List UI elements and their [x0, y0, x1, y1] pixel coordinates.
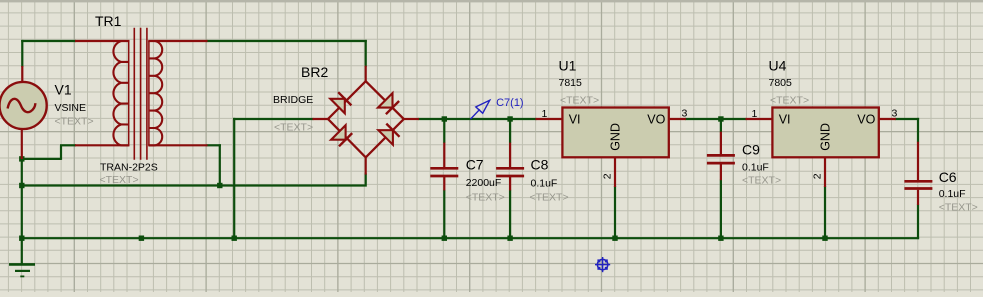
- capacitor C7 plates: [430, 167, 458, 170]
- svg-text:3: 3: [682, 108, 688, 120]
- svg-text:<TEXT>: <TEXT>: [770, 94, 809, 106]
- svg-text:C8: C8: [531, 157, 549, 173]
- svg-text:<TEXT>: <TEXT>: [100, 174, 139, 186]
- svg-text:0.1uF: 0.1uF: [939, 188, 966, 200]
- pin bridge top: [365, 66, 367, 83]
- svg-text:VO: VO: [857, 113, 875, 127]
- svg-text:1: 1: [542, 108, 548, 120]
- capacitor C6 plates: [904, 180, 932, 183]
- junction C8 bottom: [507, 236, 512, 241]
- svg-text:V1: V1: [55, 81, 72, 97]
- ground: [21, 238, 23, 264]
- svg-text:<TEXT>: <TEXT>: [560, 94, 599, 106]
- svg-text:<TEXT>: <TEXT>: [55, 116, 94, 128]
- pin U4 GND (2): [824, 156, 826, 187]
- pin C6 bottom lead: [917, 190, 919, 205]
- pin TR1 secondary top: [148, 40, 207, 42]
- diode BR2 upper-left: [330, 99, 345, 114]
- svg-text:2: 2: [811, 173, 823, 179]
- svg-text:2200uF: 2200uF: [466, 177, 502, 189]
- regulator U4 body: [772, 108, 878, 158]
- diode BR2 lower-left: [331, 125, 346, 140]
- pin C8 bottom lead: [509, 177, 511, 191]
- svg-text:<TEXT>: <TEXT>: [274, 121, 313, 133]
- svg-text:TR1: TR1: [95, 13, 122, 29]
- pin C6 top lead: [917, 142, 919, 181]
- wire C9 leads: [720, 118, 722, 132]
- svg-text:7805: 7805: [769, 77, 793, 89]
- junction U4 GND on rail: [822, 236, 827, 241]
- svg-text:C7: C7: [466, 157, 484, 173]
- junction C7 bottom: [442, 236, 447, 241]
- svg-text:<TEXT>: <TEXT>: [939, 201, 978, 213]
- transformer TR1 core: [133, 28, 135, 160]
- diode BR2 upper-right: [378, 93, 393, 108]
- wire U4 VO to C6: [895, 118, 919, 120]
- svg-text:GND: GND: [819, 123, 833, 151]
- wire bridge left to ground rail: [233, 118, 313, 120]
- svg-text:VO: VO: [647, 113, 665, 127]
- junction bridge-left leg on rail: [232, 236, 237, 241]
- pin U4 VI (1): [746, 118, 774, 120]
- wire bridge bottom to left ground net: [21, 184, 367, 186]
- regulator U1 body: [562, 108, 668, 158]
- svg-text:BR2: BR2: [301, 64, 328, 80]
- svg-text:TRAN-2P2S: TRAN-2P2S: [100, 161, 158, 173]
- wire C7 leads: [443, 118, 445, 143]
- pin C7 top lead: [443, 143, 445, 168]
- svg-text:VSINE: VSINE: [55, 102, 87, 114]
- wire V1 bottom to TR1 primary bottom: [21, 158, 61, 160]
- pin TR1 primary bottom: [75, 144, 130, 146]
- pin TR1 secondary bottom: [148, 144, 207, 146]
- pin V1 top: [21, 66, 23, 83]
- junction ground net at x22 y185: [19, 183, 24, 188]
- source V1 sine symbol: [8, 99, 36, 112]
- pin U1 VO (3): [668, 118, 686, 120]
- junction C9 bottom: [718, 236, 723, 241]
- pin U4 VO (3): [878, 118, 896, 120]
- pin TR1 primary top: [75, 40, 130, 42]
- junction ground rail left: [19, 236, 24, 241]
- pin bridge right: [404, 118, 419, 120]
- junction C8 top: [507, 116, 512, 121]
- wire TR1 secondary bottom down: [207, 144, 221, 146]
- svg-text:<TEXT>: <TEXT>: [530, 191, 569, 203]
- junction on rail below TR1: [139, 236, 144, 241]
- pin U1 GND (2): [614, 156, 616, 187]
- wire bridge right to U1 VI: [418, 118, 537, 120]
- svg-text:1: 1: [752, 108, 758, 120]
- wire TR1 secondary top to bridge top: [207, 40, 367, 42]
- svg-text:0.1uF: 0.1uF: [742, 161, 769, 173]
- pin C7 bottom lead: [443, 177, 445, 191]
- svg-text:<TEXT>: <TEXT>: [466, 191, 505, 203]
- pin C9 bottom lead: [720, 164, 722, 180]
- pin V1 bottom: [21, 129, 23, 159]
- svg-text:2: 2: [601, 173, 613, 179]
- wire C8 leads: [509, 118, 511, 143]
- svg-text:C9: C9: [742, 141, 760, 157]
- wire V1 top to TR1 primary: [21, 40, 76, 42]
- wire U4 GND to rail: [824, 186, 826, 239]
- junction U1 GND on rail: [612, 236, 617, 241]
- svg-text:C6: C6: [939, 169, 957, 185]
- wire U1 GND to rail: [614, 186, 616, 239]
- svg-text:VI: VI: [569, 113, 581, 127]
- capacitor C9 plates: [707, 154, 735, 157]
- origin marker (blue crosshair): [595, 257, 610, 272]
- svg-text:7815: 7815: [559, 77, 583, 89]
- source V1 circle: [0, 82, 47, 129]
- wire V1 bottom to ground rail: [21, 158, 23, 239]
- pin C8 top lead: [509, 143, 511, 168]
- pin bridge bottom: [365, 157, 367, 174]
- svg-text:GND: GND: [609, 123, 623, 151]
- wire U1 VO to U4 VI: [685, 118, 747, 120]
- svg-text:C7(1): C7(1): [496, 97, 524, 109]
- svg-text:VI: VI: [779, 113, 791, 127]
- capacitor C8 plates: [496, 167, 524, 170]
- svg-text:<TEXT>: <TEXT>: [742, 175, 781, 187]
- junction C9 top: [718, 116, 723, 121]
- svg-text:3: 3: [892, 108, 898, 120]
- svg-text:U4: U4: [769, 58, 787, 74]
- diode BR2 lower-right: [378, 130, 393, 145]
- transformer TR1 secondary coil: [148, 41, 150, 145]
- svg-text:U1: U1: [559, 58, 577, 74]
- bridge BR2 diamond outline: [328, 81, 404, 157]
- pin U1 VI (1): [536, 118, 564, 120]
- wire C6 leads: [917, 118, 919, 142]
- pin bridge left: [313, 118, 330, 120]
- junction C7 top: [442, 116, 447, 121]
- transformer TR1 primary coil: [128, 41, 130, 145]
- junction V1- / primary bottom: [19, 156, 24, 161]
- svg-text:0.1uF: 0.1uF: [531, 177, 558, 189]
- junction secondary bottom: [217, 183, 222, 188]
- ground rail: [21, 237, 919, 239]
- svg-text:BRIDGE: BRIDGE: [273, 94, 313, 106]
- probe arrow C7(1): [471, 100, 490, 119]
- pin C9 top lead: [720, 132, 722, 155]
